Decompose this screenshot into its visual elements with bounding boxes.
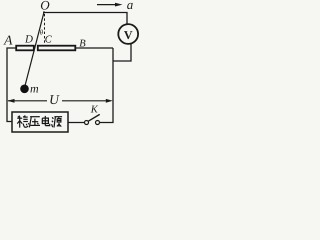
power supply box (stabilized voltage source): [12, 112, 68, 132]
char yuan (source): [52, 117, 63, 128]
plate A-B left section (left of slit D): [16, 46, 34, 51]
pivot point O: [43, 11, 45, 13]
thread from O to ball m: [25, 12, 44, 85]
dimension line U left segment with left arrow: [8, 100, 47, 102]
svg-text:D: D: [24, 34, 33, 46]
wire from plate right end B to right rail: [76, 47, 113, 49]
right rail wire: [100, 48, 113, 123]
wire power supply to switch: [68, 122, 84, 124]
svg-text:O: O: [40, 0, 50, 13]
dashed vertical line from O: [44, 14, 46, 44]
switch K right contact: [96, 121, 100, 125]
background paper: [0, 0, 143, 136]
char ya (pressure): [29, 117, 40, 128]
plate A-B right section (right of slit C): [38, 46, 76, 51]
wire top: pivot O to voltmeter top: [45, 13, 128, 25]
svg-text:C: C: [45, 35, 53, 46]
switch K left contact: [85, 121, 89, 125]
char dian (electric): [42, 116, 49, 126]
power supply text glyphs (hand drawn CJK strokes): [17, 116, 62, 128]
ball m: [20, 85, 29, 94]
voltmeter V: [118, 24, 138, 44]
char wen (stable): [17, 116, 29, 128]
svg-text:m: m: [30, 81, 39, 95]
svg-text:A: A: [3, 33, 13, 48]
dimension line U right segment with right arrow: [62, 100, 107, 102]
svg-text:K: K: [90, 105, 99, 116]
switch K lever: [88, 114, 99, 121]
svg-text:θ: θ: [40, 28, 44, 36]
wire voltmeter bottom to right rail: [113, 44, 131, 61]
arrow a (acceleration arrow): [97, 4, 116, 6]
svg-text:V: V: [124, 28, 133, 42]
svg-text:U: U: [49, 92, 60, 107]
wire from plate left end to left rail: [7, 48, 16, 122]
svg-text:a: a: [127, 0, 134, 12]
